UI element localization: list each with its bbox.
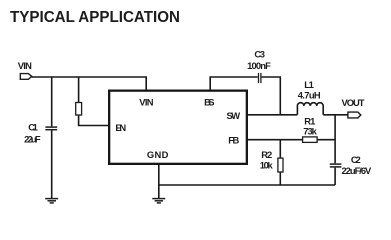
svg-text:C1: C1 bbox=[28, 122, 38, 133]
svg-text:VIN: VIN bbox=[18, 60, 32, 71]
svg-text:SW: SW bbox=[227, 110, 241, 121]
svg-text:C3: C3 bbox=[254, 49, 265, 60]
svg-text:4.7uH: 4.7uH bbox=[298, 90, 321, 101]
svg-text:22uF/6V: 22uF/6V bbox=[342, 165, 373, 176]
svg-text:GND: GND bbox=[147, 149, 169, 160]
svg-text:73k: 73k bbox=[303, 125, 317, 136]
svg-text:22uF: 22uF bbox=[24, 134, 41, 145]
svg-text:BS: BS bbox=[204, 96, 214, 107]
svg-text:TYPICAL APPLICATION: TYPICAL APPLICATION bbox=[10, 9, 180, 26]
svg-text:10k: 10k bbox=[260, 159, 274, 170]
svg-text:FB: FB bbox=[228, 135, 239, 146]
svg-text:VIN: VIN bbox=[139, 96, 153, 107]
svg-text:VOUT: VOUT bbox=[342, 97, 365, 108]
svg-text:100nF: 100nF bbox=[247, 60, 271, 71]
svg-text:L1: L1 bbox=[304, 79, 314, 90]
svg-text:R2: R2 bbox=[261, 149, 272, 160]
svg-text:EN: EN bbox=[115, 122, 126, 133]
svg-text:C2: C2 bbox=[351, 154, 361, 165]
